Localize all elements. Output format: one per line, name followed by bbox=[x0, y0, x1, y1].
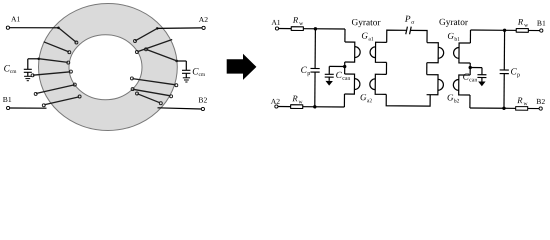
svg-text:A2: A2 bbox=[199, 15, 208, 24]
svg-text:R: R bbox=[292, 15, 299, 25]
svg-text:P: P bbox=[404, 15, 411, 25]
svg-text:G: G bbox=[361, 30, 368, 40]
svg-text:b1: b1 bbox=[454, 37, 460, 43]
svg-text:R: R bbox=[517, 17, 524, 27]
svg-text:a1: a1 bbox=[368, 37, 373, 43]
svg-text:A1: A1 bbox=[11, 14, 20, 23]
svg-text:cm: cm bbox=[199, 72, 206, 78]
svg-text:R: R bbox=[516, 95, 523, 105]
svg-text:Gyrator: Gyrator bbox=[439, 18, 469, 28]
svg-text:p: p bbox=[517, 72, 520, 78]
svg-text:can: can bbox=[342, 76, 350, 82]
svg-text:B1: B1 bbox=[537, 19, 546, 28]
svg-text:R: R bbox=[291, 93, 298, 103]
svg-text:a2: a2 bbox=[367, 98, 372, 104]
svg-text:σ: σ bbox=[411, 20, 415, 26]
svg-text:B2: B2 bbox=[536, 97, 545, 106]
svg-text:w: w bbox=[524, 23, 529, 29]
svg-text:A2: A2 bbox=[271, 97, 281, 106]
svg-text:G: G bbox=[447, 31, 454, 41]
svg-text:p: p bbox=[307, 71, 310, 77]
svg-text:b2: b2 bbox=[454, 98, 460, 104]
svg-text:Gyrator: Gyrator bbox=[352, 18, 382, 28]
svg-text:can: can bbox=[469, 78, 477, 84]
svg-text:B2: B2 bbox=[198, 95, 207, 104]
svg-text:G: G bbox=[360, 92, 367, 102]
svg-text:cm: cm bbox=[10, 69, 17, 75]
svg-text:w: w bbox=[299, 21, 304, 27]
svg-text:B1: B1 bbox=[3, 95, 12, 104]
svg-text:G: G bbox=[447, 92, 454, 102]
svg-text:A1: A1 bbox=[271, 18, 281, 27]
